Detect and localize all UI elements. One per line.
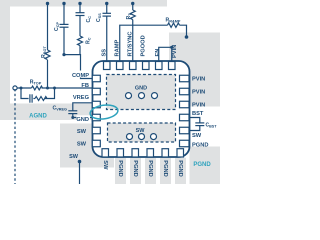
AGND plane (top band + left band + AGND bar) [0,0,167,120]
svg-text:PVIN: PVIN [192,77,205,83]
svg-text:SS: SS [102,49,108,57]
highlight ellipse around GND pin [89,103,119,120]
svg-text:SW: SW [77,142,87,148]
svg-text:PGND: PGND [132,160,138,176]
PGND via stripe 2 [130,158,141,184]
svg-text:PVIN: PVIN [192,103,205,109]
pin SW (right 5) [180,127,190,134]
op IC U1 outline (QFN package) [93,61,190,157]
PGND via stripe 1 [115,158,126,184]
PGND plane (bottom right) [190,147,221,185]
svg-text:SW: SW [136,128,146,134]
svg-text:GND: GND [76,117,89,123]
node FB junction dot B (RBOT tap) [46,87,49,90]
pin PVIN (right 1) [180,75,190,82]
pin SS (top 1) [104,62,111,70]
pin PGND (bottom 3) [132,149,139,157]
feed-forward capacitor (parallel with RTOP) [21,88,35,103]
svg-text:PGND: PGND [147,160,153,176]
node PVIN junction dot [185,35,189,39]
svg-text:PVIN: PVIN [192,90,205,96]
svg-text:FB: FB [81,83,89,89]
SW plane (bottom left of IC) [60,124,114,168]
wire FB net [17,87,93,89]
svg-text:PGND: PGND [192,142,208,148]
capacitor CSS (SS pin) [103,4,112,62]
svg-text:PGND: PGND [117,160,123,176]
dashed VOUT line [14,89,16,184]
svg-text:PGND: PGND [162,160,168,176]
pin SW (left 6) [92,140,100,147]
pin EN (top 5) [156,62,163,70]
pin GND (left 4) [92,114,100,121]
pin PGND (bottom 2) [117,149,124,157]
svg-text:SW: SW [77,129,87,135]
node EN/PVIN dot [170,46,173,49]
node SW dot [78,160,82,164]
pin PVIN (right 3) [180,101,190,108]
svg-text:VREG: VREG [73,95,90,101]
capacitor CVREG (VREG to GND) [68,103,93,118]
pin PGOOD (top 4) [143,62,150,70]
node VOUT circle [13,86,17,90]
pin PVIN (right 2) [180,88,190,95]
svg-text:SW: SW [69,154,79,160]
SW pad via 2 [139,134,145,140]
SW exposed pad [108,123,176,142]
SW pad via 1 [127,134,133,140]
resistor RBOT (FB to AGND) [45,4,50,89]
pin SW (left 5) [92,127,100,134]
wire EN to PVIN [159,47,172,61]
SW pad via 3 [151,134,157,140]
resistor RRAMP [168,23,180,27]
pin PGND (bottom 4) [147,149,154,157]
svg-text:BST: BST [192,111,204,117]
pin PGND (right 6) [180,140,190,147]
pin BST (right 4) [180,114,190,121]
GND exposed pad [107,75,176,110]
PGND via stripe 4 [160,158,171,184]
wire RAMP net [120,25,187,61]
GND pad via 1 [126,93,132,99]
pin VREG (left 3) [92,101,100,108]
svg-text:SW: SW [192,133,202,139]
svg-text:PVIN: PVIN [172,45,178,58]
svg-text:GND: GND [135,85,147,91]
capacitor CBST (BST to SW) [189,118,204,131]
PVIN plane (top right) [169,33,220,107]
pin PGND (bottom 6) [177,149,184,157]
capacitor CCP (COMP to AGND) [60,4,69,55]
GND pad via 3 [152,93,158,99]
PGND via stripe 3 [145,158,156,184]
pin SW (bottom 1) [102,149,109,157]
PGND via stripe 5 [175,158,186,184]
svg-text:AGND: AGND [29,114,47,120]
feed-forward resistor (parallel with RTOP) [35,88,55,101]
resistor RT (RT/SYNC pin) [130,4,135,62]
svg-text:EN: EN [155,49,161,57]
svg-text:RAMP: RAMP [115,40,121,57]
pin COMP (left 1) [92,75,100,82]
svg-text:SW: SW [102,160,108,170]
svg-text:COMP: COMP [72,73,89,79]
svg-text:PGND: PGND [193,162,211,168]
svg-text:PGND: PGND [177,160,183,176]
pin RT/SYNC (top 3) [130,62,137,70]
GND pad via 2 [139,93,145,99]
pin RAMP (top 2) [117,62,124,70]
pin PGND (bottom 5) [162,149,169,157]
pin PVIN (top 6) [169,62,176,70]
resistor RC (series with CC to COMP) [78,36,83,55]
wire COMP net [64,55,93,79]
pin label GND (left) [76,115,90,123]
pin FB (left 2) [92,88,100,95]
node FB junction dot C [53,87,56,90]
capacitor CC (series with RC) [76,4,85,37]
node FB junction dot A [20,87,23,90]
svg-text:PGOOD: PGOOD [141,35,147,56]
resistor RTOP [32,86,43,90]
svg-text:RT/SYNC: RT/SYNC [128,32,134,57]
pin label COMP [72,71,91,79]
wire SW net going down [79,162,81,185]
